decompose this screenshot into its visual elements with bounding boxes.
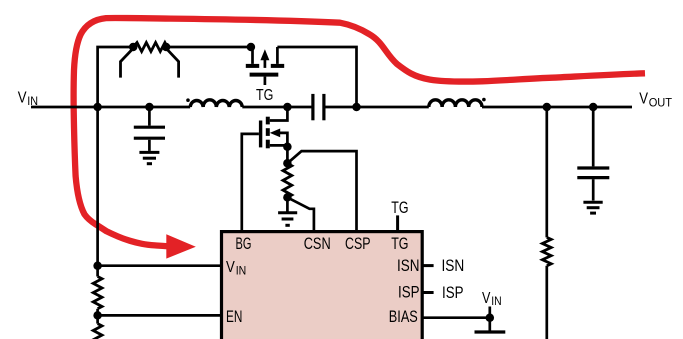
junction sense resistor top [283,159,292,168]
wire CSN kelvin tap [287,197,314,231]
capacitor Cin [134,107,165,151]
capacitor Cout [577,107,609,201]
junction divider/VIN pin [93,261,102,270]
wire M2 source to sense resistor [286,147,289,164]
svg-text:EN: EN [226,308,242,326]
svg-text:IN: IN [236,266,247,278]
red current-flow loop arrow [74,18,645,246]
transistor M1 arrow [260,49,269,60]
svg-text:TG: TG [391,235,408,253]
svg-text:V: V [18,89,27,106]
wire feedback divider lower [545,266,548,339]
wire divider between resistors [96,309,99,324]
svg-text:ISN: ISN [442,257,465,275]
ground under Cout [583,202,602,213]
wire ISP pin stub [422,291,433,294]
wire sense resistor to ground [286,197,289,211]
junction BIAS/VIN [486,313,495,322]
svg-text:V: V [226,259,235,276]
inductor L2 [429,100,482,107]
junction M2 source [283,142,292,151]
junction rail/feedback divider [543,103,552,112]
svg-text:CSP: CSP [345,235,371,253]
IC U1 body [222,232,423,339]
junction rail/input cap [145,103,154,112]
svg-text:BG: BG [236,235,252,253]
wire M2 gate to BG pin [242,134,259,232]
svg-text:V: V [482,290,491,307]
resistor Rsense [283,163,292,197]
red arrowhead [166,234,196,258]
ground at BIAS bypass [475,330,506,333]
wire BIAS to VIN bypass [422,316,490,319]
svg-text:TG: TG [391,198,408,217]
wire CSP kelvin tap [287,151,356,232]
svg-text:IN: IN [491,296,501,308]
transistor M2 (bottom MOSFET, gate BG) [261,107,288,148]
junction divider/EN pin [93,311,102,320]
wire EN pin feed [98,314,222,317]
junction rail/top branch right [352,103,361,112]
inductor L1 [190,100,242,107]
L2 phasing dot [482,98,486,102]
junction M1 drain on top wire [247,43,256,52]
wire VIN stub to BIAS node [488,307,491,331]
wire main rail between L1 and coupling cap [242,106,313,109]
ground under Cin [139,152,159,163]
wire top branch middle (damping resistor to M1) [166,46,252,49]
resistor R1 (VIN-EN divider top) [93,277,102,309]
wire feedback divider upper [545,107,548,237]
junction Rd right terminal [162,43,171,52]
resistor R2 (EN divider bottom) [93,324,102,339]
svg-text:OUT: OUT [649,97,672,109]
junction rail/output cap [589,103,598,112]
wire TG pin stub [396,215,399,231]
wire main rail between coupling cap and L2 [324,106,429,109]
resistor Rfb [542,237,551,265]
wire main rail left segment (VIN to L1) [31,106,190,109]
svg-text:IN: IN [27,96,38,108]
transistor M2 body arrow [270,129,280,138]
wire top branch left (rail up to damping resistor) [98,47,134,107]
svg-text:ISP: ISP [398,284,420,302]
capacitor Cc (series coupling cap) [313,94,324,120]
svg-text:TG: TG [256,87,273,104]
svg-text:BIAS: BIAS [389,308,418,326]
wire left divider vertical [96,107,99,277]
svg-text:ISN: ISN [397,257,420,275]
L1 phasing dot [186,98,190,102]
wire VIN pin feed [98,264,222,267]
wire top branch right (M1 down to rail) [277,47,356,107]
wire main rail right segment (L2 to VOUT) [482,106,632,109]
ground under Rsense [278,213,297,226]
svg-text:ISP: ISP [442,284,464,302]
junction rail/left divider [93,103,102,112]
junction sense resistor bottom [283,193,292,202]
resistor Rd (damping across L1) [121,43,179,78]
wire ISN pin stub [422,264,433,267]
junction Rd left terminal [129,43,138,52]
junction rail/M2 drain [283,103,292,112]
svg-text:V: V [639,91,648,108]
transistor M1 (top MOSFET switch, gate TG) [246,47,284,85]
svg-text:CSN: CSN [304,235,331,253]
